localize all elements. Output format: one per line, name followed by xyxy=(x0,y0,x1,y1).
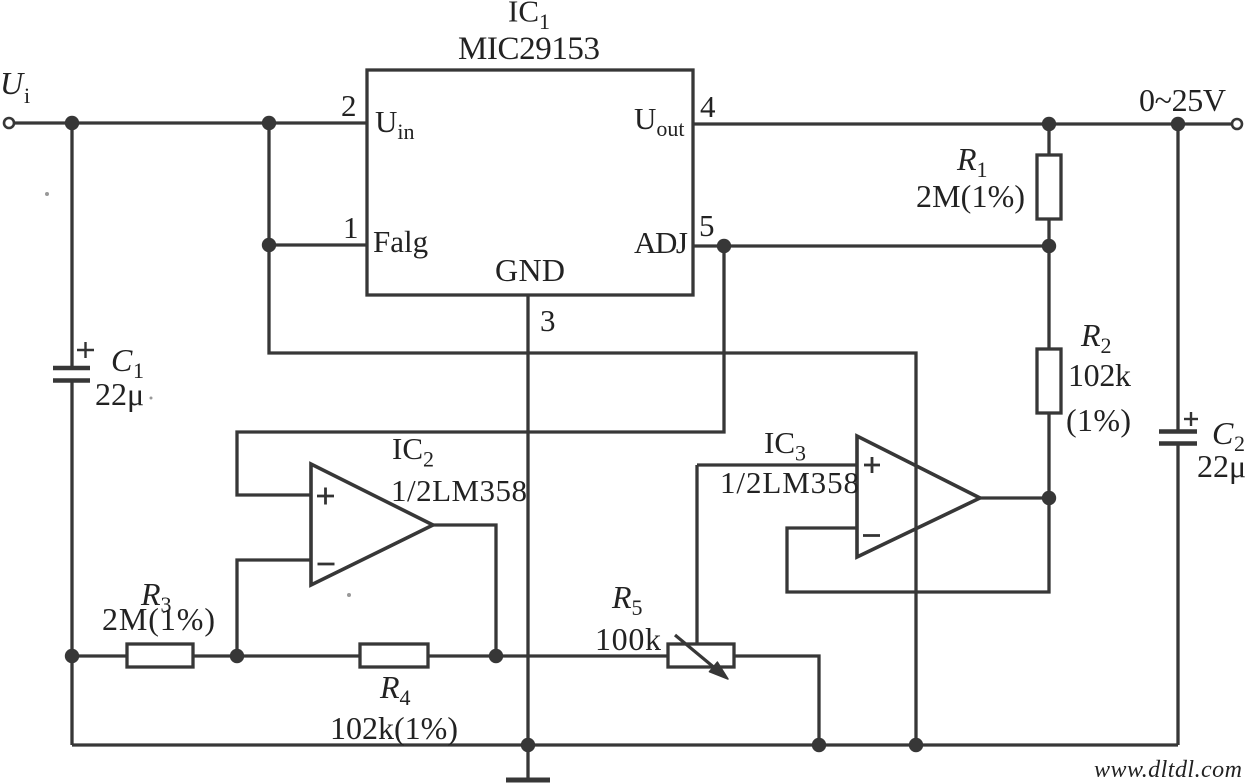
svg-text:Uout: Uout xyxy=(634,101,685,141)
svg-text:U: U xyxy=(0,65,25,101)
svg-text:22μ: 22μ xyxy=(1197,448,1245,484)
svg-text:2: 2 xyxy=(341,88,357,123)
svg-text:R4: R4 xyxy=(379,669,411,710)
svg-text:Falg: Falg xyxy=(373,224,428,259)
svg-text:100k: 100k xyxy=(595,621,661,657)
svg-text:102k: 102k xyxy=(1068,357,1131,393)
svg-text:C: C xyxy=(1212,415,1234,451)
svg-text:3: 3 xyxy=(540,303,556,338)
svg-text:GND: GND xyxy=(495,252,565,288)
svg-text:i: i xyxy=(24,83,30,108)
svg-text:MIC29153: MIC29153 xyxy=(458,31,600,67)
svg-text:4: 4 xyxy=(700,89,716,124)
svg-text:102k(1%): 102k(1%) xyxy=(330,710,458,746)
svg-text:R2: R2 xyxy=(1080,317,1112,358)
svg-text:2M(1%): 2M(1%) xyxy=(916,178,1025,214)
svg-text:IC3: IC3 xyxy=(764,425,806,466)
svg-text:IC2: IC2 xyxy=(392,431,434,472)
svg-text:www.dltdl.com: www.dltdl.com xyxy=(1094,757,1242,783)
svg-text:5: 5 xyxy=(699,208,715,243)
svg-text:1: 1 xyxy=(343,210,359,245)
svg-text:22μ: 22μ xyxy=(95,376,144,412)
svg-text:R1: R1 xyxy=(956,141,988,182)
svg-text:1/2LM358: 1/2LM358 xyxy=(720,465,859,500)
svg-text:1/2LM358: 1/2LM358 xyxy=(391,473,527,508)
svg-text:0~25V: 0~25V xyxy=(1139,82,1226,118)
svg-text:IC1: IC1 xyxy=(508,0,550,34)
svg-text:2M(1%): 2M(1%) xyxy=(102,601,215,637)
svg-text:(1%): (1%) xyxy=(1066,402,1131,438)
svg-text:R5: R5 xyxy=(611,579,643,620)
svg-text:Uin: Uin xyxy=(375,104,415,144)
svg-text:C: C xyxy=(111,342,133,378)
svg-text:ADJ: ADJ xyxy=(634,225,688,260)
